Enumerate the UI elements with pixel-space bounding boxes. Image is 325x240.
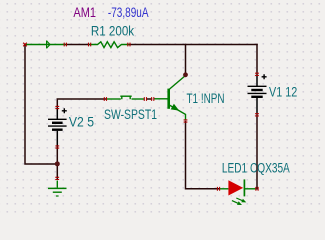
svg-text:-73,89uA: -73,89uA	[108, 5, 149, 20]
svg-text:AM1: AM1	[73, 5, 96, 20]
svg-text:LED1 CQX35A: LED1 CQX35A	[222, 160, 290, 175]
svg-text:T1 !NPN: T1 !NPN	[187, 91, 225, 106]
svg-text:V1 12: V1 12	[269, 85, 297, 100]
svg-text:R1 200k: R1 200k	[91, 23, 134, 38]
svg-text:SW-SPST1: SW-SPST1	[104, 107, 157, 122]
svg-text:V2 5: V2 5	[69, 114, 94, 129]
